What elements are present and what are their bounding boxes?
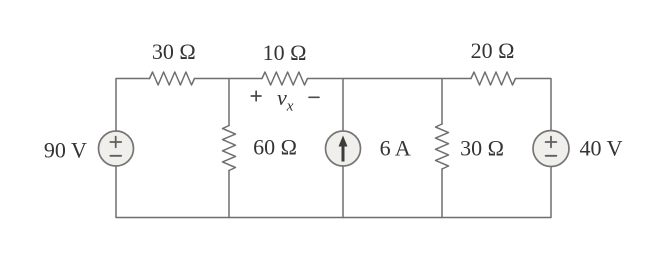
V1 minus sign xyxy=(110,155,121,157)
resistor R1 30ohm zigzag xyxy=(150,72,195,85)
svg-text:vx: vx xyxy=(277,85,294,114)
wire 6A branch lower xyxy=(342,166,344,218)
wire top-left segment xyxy=(116,79,150,132)
svg-text:30 Ω: 30 Ω xyxy=(460,136,504,161)
wire top-right segment xyxy=(516,79,552,131)
voltage source V1 90V circle xyxy=(99,131,134,166)
wire 30ohm branch lower xyxy=(441,169,443,218)
V1 plus sign xyxy=(110,137,121,148)
I1 arrow head xyxy=(339,136,348,147)
wire 60ohm branch upper xyxy=(228,79,230,126)
I1 arrow shaft xyxy=(342,144,345,162)
current source I1 6A circle xyxy=(326,131,361,166)
svg-text:10 Ω: 10 Ω xyxy=(263,40,307,65)
resistor R5 20ohm zigzag xyxy=(471,72,516,85)
wire top between 30ohm and 10ohm xyxy=(195,78,263,80)
resistor R3 60ohm zigzag xyxy=(223,126,236,171)
V2 plus sign xyxy=(546,137,557,148)
wire 60ohm branch lower xyxy=(228,171,230,218)
resistor R2 10ohm zigzag xyxy=(262,72,308,85)
svg-text:60 Ω: 60 Ω xyxy=(253,135,297,160)
svg-text:90 V: 90 V xyxy=(44,138,87,163)
V2 minus sign xyxy=(546,155,557,157)
wire bottom xyxy=(116,166,551,218)
svg-text:6 A: 6 A xyxy=(380,136,411,161)
node vx minus sign xyxy=(309,96,319,98)
wire 30ohm branch upper xyxy=(441,79,443,125)
wire top between 10ohm and 20ohm xyxy=(308,78,472,80)
resistor R4 30ohm zigzag xyxy=(436,124,449,169)
svg-text:30 Ω: 30 Ω xyxy=(152,39,196,64)
svg-text:20 Ω: 20 Ω xyxy=(471,38,515,63)
svg-text:40 V: 40 V xyxy=(580,136,623,161)
node vx plus sign xyxy=(251,91,261,101)
wire 6A branch upper xyxy=(342,79,344,132)
voltage source V2 40V circle xyxy=(533,131,569,167)
